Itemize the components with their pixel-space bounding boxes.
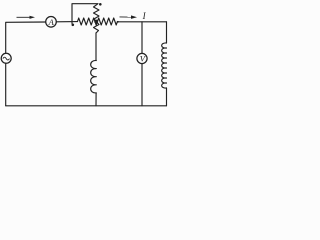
- wire voltmeter branch: [141, 22, 143, 106]
- voltmeter V: [137, 53, 147, 63]
- wiper zigzag arm: [94, 4, 100, 33]
- wire top-left horizontal: [6, 22, 46, 54]
- wire ammeter to resistor: [56, 21, 77, 23]
- wire right vertical lower: [166, 88, 168, 106]
- resistor R (horizontal zigzag track): [78, 18, 118, 25]
- junction dot (resistor right end): [117, 21, 119, 23]
- wire wiper loop: [72, 4, 98, 24]
- svg-text:I: I: [142, 11, 147, 21]
- ac source G: [1, 53, 11, 63]
- wire middle branch bottom: [95, 93, 97, 106]
- current arrow left: [17, 16, 36, 19]
- svg-text:A: A: [48, 17, 55, 27]
- junction blob (wiper contact): [94, 20, 98, 24]
- junction dot (rheostat tap): [72, 24, 75, 27]
- current arrow right: [120, 15, 138, 19]
- junction dot (wiper top): [99, 3, 102, 6]
- coil (middle load winding): [91, 60, 97, 92]
- wire middle branch: [95, 33, 97, 61]
- wire resistor to right corner: [117, 21, 166, 23]
- wire right vertical upper: [166, 22, 168, 43]
- ammeter A: [46, 17, 57, 28]
- wire left vertical lower: [5, 64, 7, 106]
- wire bottom: [6, 105, 167, 107]
- inductor L (right coil): [162, 43, 167, 88]
